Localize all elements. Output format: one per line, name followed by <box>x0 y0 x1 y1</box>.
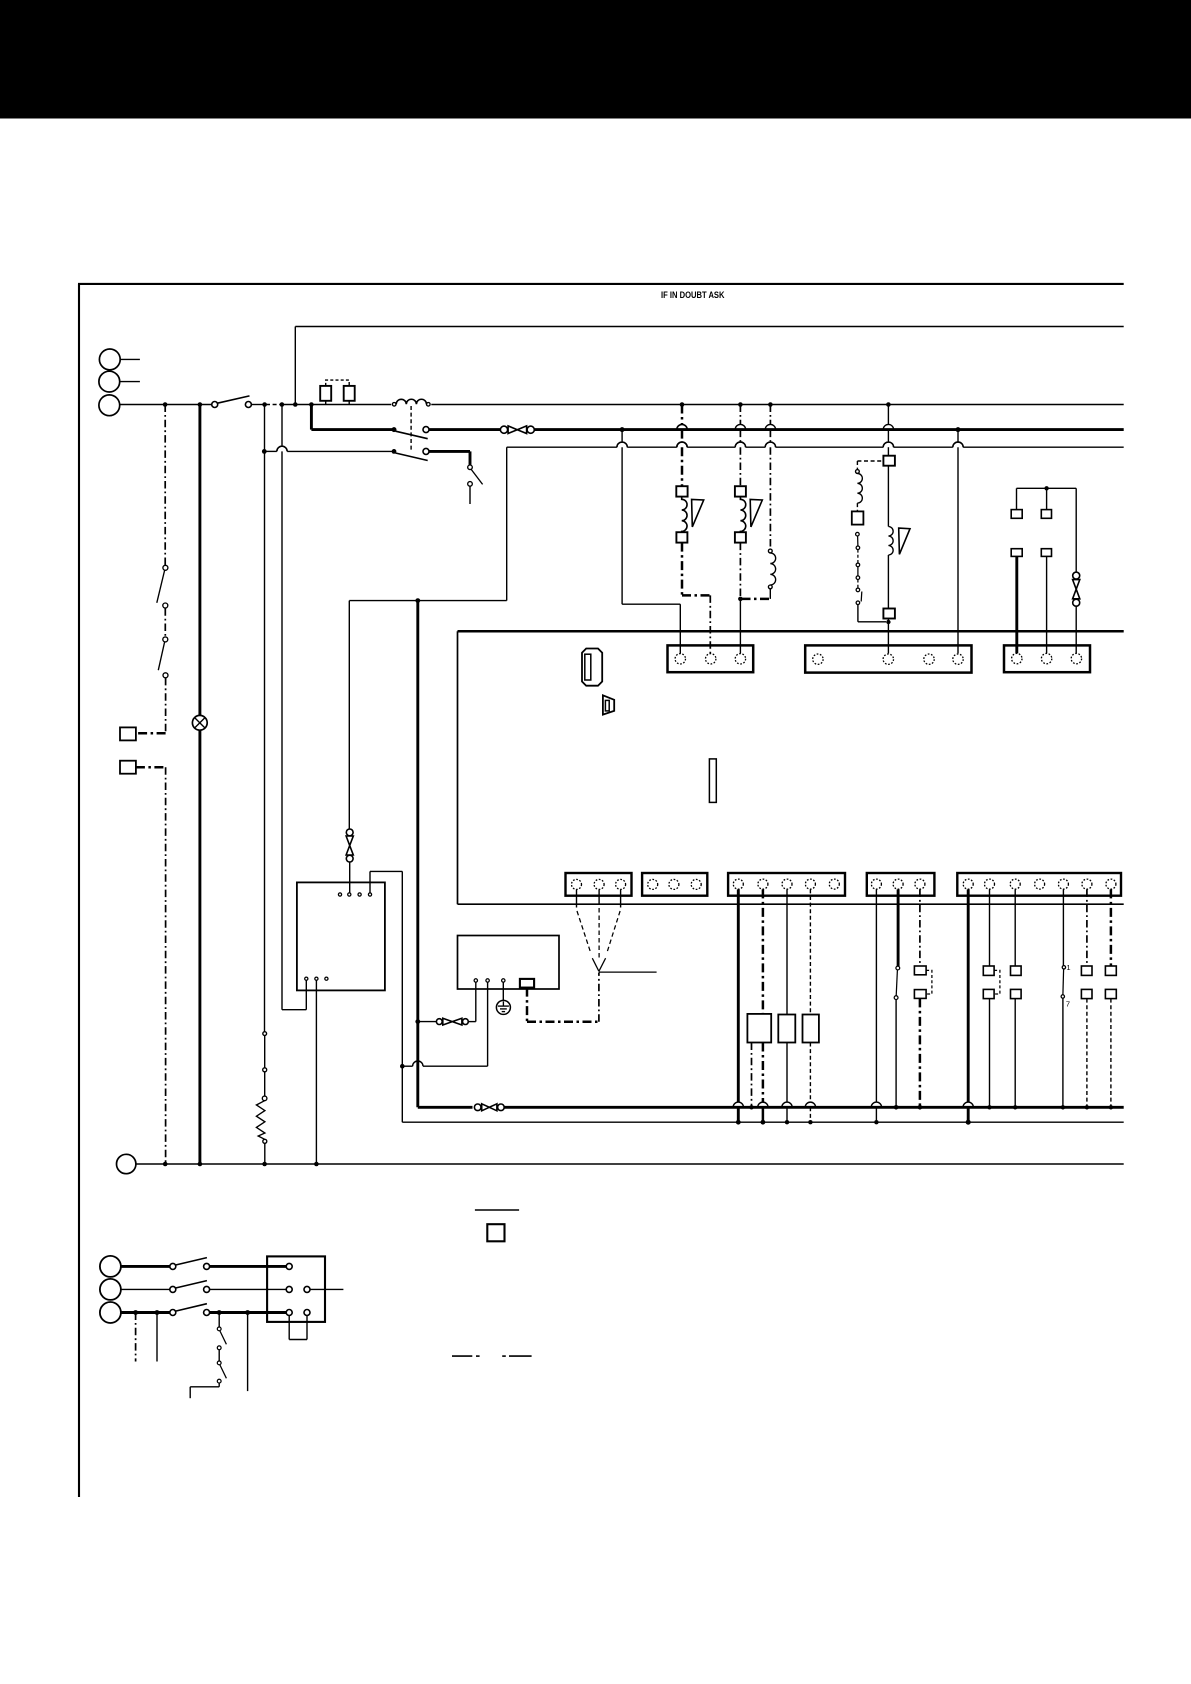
load wire TB6-3 lower <box>782 1043 792 1125</box>
motor wire row3 <box>121 1304 310 1316</box>
neutral junction dots <box>163 1162 319 1167</box>
wire TB8-7 lower <box>1109 999 1113 1110</box>
top wire <box>295 326 1123 328</box>
supply terminal L3 <box>99 395 120 416</box>
jumper slot <box>709 759 716 803</box>
overload F4 lower box <box>735 532 746 542</box>
TB5 terminal 1 <box>648 879 658 889</box>
svg-text:IF IN DOUBT ASK: IF IN DOUBT ASK <box>661 290 725 300</box>
TB3 terminal 3 <box>1071 653 1081 663</box>
motor wire row1 <box>121 1258 292 1270</box>
wire L3 right bus <box>507 442 1124 447</box>
aux stub 2 <box>1046 488 1048 509</box>
load wire TB6-3 upper <box>786 889 788 1014</box>
contact K2 on L3 <box>396 448 430 460</box>
svg-text:1: 1 <box>1066 963 1070 972</box>
ribbon line <box>599 971 657 973</box>
TB8 terminal 5 <box>1058 879 1068 889</box>
terminal strip TB6 <box>728 873 845 896</box>
lamp circuit wire <box>198 405 201 716</box>
branch 857 bottom <box>858 605 886 622</box>
svg-text:7: 7 <box>1066 1000 1070 1009</box>
wire TB8-3 lower <box>1013 999 1017 1110</box>
strainer psu <box>415 1018 475 1025</box>
strainer relay feed <box>346 829 353 893</box>
relay pins top <box>338 893 371 896</box>
motor link U <box>289 1316 307 1340</box>
terminal strip TB2 <box>805 645 971 672</box>
wire TB8-2 lower <box>987 999 991 1110</box>
wire TB8-5 lower <box>1061 998 1065 1109</box>
wire TB8-6 lower <box>1085 999 1089 1110</box>
chain 888 upper <box>883 405 893 456</box>
ribbon stub 2 <box>598 890 600 959</box>
thermostat box 857 <box>852 511 864 524</box>
TB1 terminal 1 <box>675 654 685 664</box>
motor interlock drop <box>247 1313 249 1392</box>
aux drop 2 <box>1046 556 1048 653</box>
wire TB8-6 upper <box>1086 889 1088 966</box>
plug X1 <box>120 727 136 740</box>
load box LD1 <box>747 1014 771 1043</box>
motor stub b <box>156 1313 158 1362</box>
TB8 terminal 6 <box>1082 879 1092 889</box>
load wire TB6-4 lower <box>805 1043 815 1125</box>
terminal strip TB4 <box>566 873 632 896</box>
dashed link choke to L3 <box>410 406 412 451</box>
wire TB7-3 lower <box>918 998 923 1109</box>
connector pair b <box>262 1072 267 1101</box>
top feed riser <box>294 327 296 405</box>
coil link 740-770 <box>742 598 771 601</box>
thick rail horizontal <box>418 1104 1124 1111</box>
TB6 terminal 2 <box>758 879 768 889</box>
contact pair TB7 <box>914 966 932 998</box>
terminal strip TB5 <box>642 873 707 896</box>
drop 958 to strip B <box>953 430 963 654</box>
TB7 terminal 1 <box>871 879 881 889</box>
junction dots wire L3 <box>262 449 397 454</box>
coil 888 <box>888 527 893 556</box>
lamp H1 <box>192 715 207 730</box>
aux drop 1 <box>1015 556 1018 653</box>
chain 888 lower <box>887 555 889 609</box>
TB7 terminal 3 <box>915 879 925 889</box>
motor supply M2 <box>100 1279 121 1300</box>
strainer symbol on L2 <box>500 426 534 434</box>
branch 857 dashed top <box>857 461 881 470</box>
overload F4 arrow <box>750 499 762 527</box>
TB3 terminal 1 <box>1012 653 1022 663</box>
overload F3 body <box>676 486 687 496</box>
relay unit box <box>297 882 385 990</box>
motor interlock chain <box>190 1313 226 1399</box>
TB4 terminal 3 <box>616 879 626 889</box>
load wire TB6-2 upper <box>762 889 765 1014</box>
neutral terminal <box>117 1154 136 1173</box>
earth symbol <box>496 1000 510 1014</box>
branch 857 coil <box>856 470 863 504</box>
wire L2 bus <box>311 428 1123 431</box>
dash-dot link <box>164 608 166 637</box>
TB5 terminal 3 <box>691 879 701 889</box>
chain 888 tail <box>886 619 890 654</box>
psu pin2 wire <box>400 982 488 1068</box>
wire TB8-3 upper <box>1014 889 1016 966</box>
strainer vertical <box>1073 572 1080 653</box>
TB6 terminal 5 <box>829 879 839 889</box>
junction dots wire L2 <box>392 427 961 432</box>
ribbon arrowhead <box>592 958 605 971</box>
contact pair TB8d <box>1105 966 1116 999</box>
header band <box>0 0 1191 119</box>
line choke on L1 <box>392 399 430 406</box>
drop 622 to strip A <box>617 430 680 654</box>
chain 770 upper <box>765 405 775 550</box>
wire L3 drop to node <box>506 447 508 600</box>
TB4 terminal 2 <box>594 879 604 889</box>
thick rail <box>416 601 419 1108</box>
overload F3 lower box <box>676 532 687 542</box>
contact chain 857 <box>856 532 862 604</box>
note IF IN DOUBT ASK <box>661 290 725 300</box>
lamp circuit wire lower <box>198 730 201 1164</box>
isolator switch Q1 on L1 <box>212 396 252 408</box>
TB7 terminal 2 <box>893 879 903 889</box>
overload F3 arrow <box>692 499 704 527</box>
wire TB8-5 upper <box>1062 889 1064 965</box>
wire drop x282 <box>277 405 287 1010</box>
motor supply M1 <box>100 1256 121 1277</box>
motor wire row2 <box>121 1281 344 1293</box>
wire L3 left segment <box>264 446 470 451</box>
terminal strip TB3 <box>1004 645 1090 672</box>
relay pin2 wire <box>315 980 317 1164</box>
TB2 terminal 1 <box>813 654 823 664</box>
TB4 terminal 1 <box>572 879 582 889</box>
relay K3 box <box>883 456 895 466</box>
wire L2 riser <box>310 405 313 430</box>
TB2 terminal 3 <box>924 654 934 664</box>
terminal strip TB1 <box>668 645 754 672</box>
TB6 terminal 3 <box>782 879 792 889</box>
aux contact 2a <box>1041 510 1051 519</box>
TB3 terminal 2 <box>1041 653 1051 663</box>
TB1 terminal 3 <box>735 654 745 664</box>
TB6 terminal 1 <box>733 879 743 889</box>
wire TB7-2 upper <box>897 889 900 966</box>
psu box <box>458 936 560 990</box>
chain 682 lower <box>682 543 710 654</box>
supply terminal L1 <box>99 349 139 370</box>
TB8 terminal 2 <box>985 879 995 889</box>
fuse F1 <box>320 386 331 405</box>
TB5 terminal 2 <box>669 879 679 889</box>
aux stub 1 <box>1016 488 1018 509</box>
contact pair TB8a <box>983 966 1000 999</box>
buzzer symbol <box>603 695 614 714</box>
fuse link dashed <box>326 380 350 386</box>
chain 740 lower <box>738 543 743 654</box>
thin rail <box>402 1121 1123 1123</box>
overload F4 body <box>735 486 746 496</box>
load box LD2 <box>778 1015 795 1043</box>
wire TB8-1 <box>963 889 973 1124</box>
contact pair TB8b <box>1011 966 1022 999</box>
load box LD3 <box>803 1015 819 1043</box>
aux drop 3 <box>1075 488 1077 572</box>
overload F4 coil <box>740 497 745 533</box>
chain 888 mid <box>887 466 889 527</box>
aux contact 1a <box>1011 510 1022 519</box>
switch TB7 <box>894 966 900 999</box>
plug X2 link <box>136 767 166 1164</box>
resistor R1 <box>256 1101 266 1144</box>
TB8 terminal 4 <box>1035 879 1045 889</box>
psu earth wire <box>502 982 504 1000</box>
aux contact 1b <box>1011 549 1022 557</box>
TB2 terminal 2 <box>883 654 893 664</box>
relay pin4 wire <box>370 871 402 1122</box>
TB8 terminal 1 <box>963 879 973 889</box>
dash-dot to plug X1 <box>136 678 166 733</box>
legend solid line <box>475 1209 519 1211</box>
legend dash-dot <box>452 1355 532 1357</box>
motor terminal box <box>267 1256 325 1322</box>
load wire TB6-2 lower <box>758 1043 768 1125</box>
TB2 terminal 4 <box>953 654 963 664</box>
switch S2 <box>158 637 168 678</box>
supply terminal L2 <box>99 371 140 392</box>
psu connector <box>520 979 534 988</box>
control unit outline <box>458 631 1124 904</box>
neutral bus <box>136 1163 1124 1165</box>
wire TB8-7 upper <box>1110 889 1113 966</box>
wire L1 bus <box>120 404 1124 406</box>
ribbon stub 3 <box>607 890 620 952</box>
relay K3 lower box <box>883 609 895 619</box>
ribbon stub 1 <box>577 890 591 952</box>
contact pair TB8c <box>1081 966 1092 999</box>
chain 682 upper <box>677 405 687 487</box>
switch S1 <box>157 565 168 608</box>
junction dots wire L1 <box>163 402 891 407</box>
control circuit dash-dot drop <box>164 405 166 566</box>
relay pins bottom <box>305 977 328 980</box>
psu pins <box>474 979 505 982</box>
connector J1 <box>582 649 602 686</box>
resistor tail <box>264 1143 266 1164</box>
terminal strip TB7 <box>867 873 935 896</box>
switch TB8 pins 1-7 <box>1061 963 1070 1009</box>
connector pair a <box>263 1032 267 1072</box>
relay feed wire <box>348 601 350 829</box>
relay pin1 wire <box>282 980 306 1009</box>
coil K740 <box>768 549 775 599</box>
psu pin1 wire <box>475 982 477 1021</box>
wire TB7-1 <box>871 889 881 1124</box>
fuse F2 <box>344 386 355 405</box>
aux bracket bus <box>1017 486 1077 490</box>
pull switch stub <box>468 451 483 504</box>
load box LD1 tail <box>749 1043 753 1110</box>
branch 857 link <box>856 503 858 511</box>
wire drop x264 <box>264 405 266 1032</box>
wire TB8-2 upper <box>989 889 991 966</box>
wire TB7-2 lower <box>894 1000 899 1110</box>
chain 740 upper <box>735 405 745 487</box>
plug X2 <box>120 761 136 774</box>
TB8 terminal 7 <box>1106 879 1116 889</box>
TB6 terminal 4 <box>805 879 815 889</box>
drawing border <box>78 284 1124 1497</box>
psu screen lead <box>527 973 599 1022</box>
motor supply M3 <box>100 1302 121 1323</box>
load wire TB6-4 upper <box>809 889 811 1014</box>
overload F3 coil <box>682 497 687 533</box>
TB1 terminal 2 <box>706 654 716 664</box>
arrow 888 <box>899 528 910 554</box>
load wire TB6-1 <box>733 889 743 1124</box>
motor stub a <box>135 1313 137 1362</box>
wire TB7-3 upper <box>919 889 921 966</box>
node bus y600 <box>349 598 506 603</box>
legend box <box>487 1224 504 1241</box>
contact K1 on L2 <box>396 427 430 439</box>
aux contact 2b <box>1041 549 1051 557</box>
terminal strip TB8 <box>957 873 1121 896</box>
TB8 terminal 3 <box>1010 879 1020 889</box>
